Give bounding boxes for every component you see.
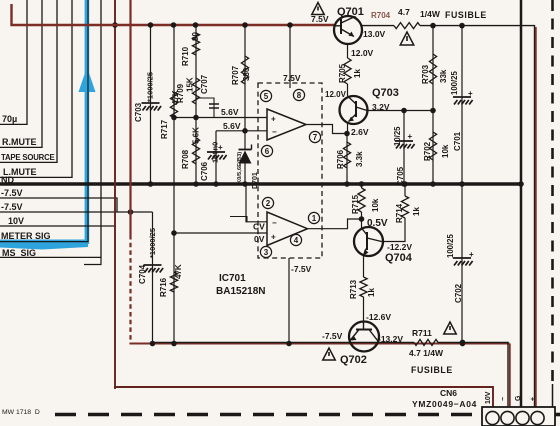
- svg-text:33k: 33k: [439, 69, 448, 83]
- svg-text:3: 3: [264, 248, 269, 257]
- resistor R705 1k: [344, 58, 351, 84]
- wire maroon vertical x130: [129, 0, 131, 235]
- wire ground bus: [0, 182, 521, 186]
- svg-text:CN6: CN6: [440, 388, 457, 398]
- svg-text:R716: R716: [159, 277, 168, 297]
- resistor R702 10k: [429, 132, 436, 160]
- pin 6 of IC701: [261, 145, 272, 156]
- svg-text:3.3k: 3.3k: [355, 151, 364, 167]
- wire C707 branch: [196, 98, 214, 118]
- svg-text:2.6V: 2.6V: [351, 127, 369, 137]
- svg-text:R711: R711: [412, 328, 432, 338]
- svg-text:47K: 47K: [174, 264, 183, 279]
- node pin4 at bottom rail: [286, 341, 292, 347]
- node C703 at bus: [148, 181, 154, 187]
- node x174 bottom rail: [171, 341, 177, 347]
- wire x433 vertical: [432, 26, 434, 184]
- wire Q704 collector to R714: [382, 218, 406, 242]
- wire -7.5V lower: [0, 211, 153, 213]
- svg-text:1k: 1k: [353, 69, 362, 78]
- svg-text:CV: CV: [253, 222, 265, 232]
- transistor Q701: [334, 16, 362, 44]
- wire C703 branch: [150, 25, 152, 184]
- node rail dot x195: [193, 22, 199, 28]
- wire top rail black right section: [362, 25, 394, 27]
- svg-text:5.6K: 5.6K: [192, 127, 201, 144]
- connector CN6 pin3 circle: [516, 411, 529, 424]
- svg-text:C702: C702: [454, 283, 463, 303]
- svg-text:+: +: [468, 89, 473, 98]
- svg-text:-7.5V: -7.5V: [322, 331, 343, 341]
- wire x462 vertical: [461, 26, 463, 344]
- svg-text:MS SIG: MS SIG: [2, 248, 36, 258]
- svg-text:-7.5V: -7.5V: [1, 188, 23, 198]
- svg-text:Q704: Q704: [385, 252, 413, 264]
- node D701 at bus: [242, 181, 248, 187]
- node C701 at bus: [459, 181, 465, 187]
- resistor R717 47K: [170, 92, 177, 118]
- svg-text:Q702: Q702: [340, 354, 367, 366]
- svg-text:YMZ0049−A04: YMZ0049−A04: [412, 399, 477, 409]
- wire op-amp U2 output: [308, 219, 362, 229]
- svg-text:80: 80: [191, 32, 200, 41]
- wire C704 branch: [152, 212, 154, 344]
- svg-text:+: +: [408, 132, 413, 141]
- node x174 opamp2 input: [171, 230, 177, 236]
- svg-text:100/25: 100/25: [446, 233, 455, 258]
- svg-text:10V: 10V: [485, 391, 492, 404]
- wire input line 3 (TAPE SOURCE): [56, 0, 58, 163]
- resistor R711 4.7 fusible: [414, 339, 438, 345]
- svg-text:C703: C703: [134, 102, 143, 122]
- node x174 top input line: [171, 115, 177, 121]
- node 0.5V node: [359, 216, 365, 222]
- svg-text:Q701: Q701: [337, 6, 364, 18]
- pin 2 of IC701: [262, 197, 273, 208]
- transistor Q704: [354, 227, 383, 256]
- pin 1 of IC701: [308, 212, 319, 223]
- pin 8 of IC701: [293, 89, 304, 100]
- wire Q704 emitter down: [363, 255, 365, 277]
- svg-text:C701: C701: [453, 131, 462, 151]
- svg-text:7.5V: 7.5V: [283, 73, 301, 83]
- wire 5.6V line to +input: [174, 117, 267, 119]
- wire x174 vertical: [173, 25, 175, 344]
- node R707 D701 junction: [242, 128, 248, 134]
- wire C706 branch: [215, 131, 217, 184]
- svg-text:5.6V: 5.6V: [221, 107, 239, 117]
- wire MS SIG jog: [84, 258, 101, 265]
- wire Q703 emitter: [347, 122, 349, 134]
- svg-text:*1000/25: *1000/25: [146, 72, 155, 102]
- node 10V at top rail: [112, 22, 118, 28]
- wire -7.5V upper: [0, 198, 117, 212]
- svg-text:13.0V: 13.0V: [363, 29, 386, 39]
- resistor R704 4.7 fusible: [394, 23, 420, 29]
- svg-text:R703: R703: [421, 64, 430, 84]
- svg-text:330: 330: [242, 67, 251, 81]
- node R709 R708 junction: [193, 115, 199, 121]
- svg-text:12.0V: 12.0V: [325, 90, 347, 99]
- node R702 at bus: [430, 181, 436, 187]
- capacitor C701 symbol: [453, 96, 471, 98]
- svg-text:4: 4: [294, 236, 299, 245]
- wire C705 branch: [403, 111, 405, 185]
- svg-text:C707: C707: [200, 74, 209, 94]
- wire METER SIG core horizontal: [0, 241, 88, 243]
- wire op-amp U2 +input: [174, 232, 267, 234]
- capacitor C707 symbol: [209, 103, 219, 105]
- wire Q701 emitter down: [347, 44, 349, 58]
- wire blue highlight horizontal METER SIG path: [0, 240, 88, 250]
- svg-text:−: −: [272, 219, 277, 228]
- wire 5.6V line to -input: [216, 130, 267, 132]
- svg-text:10k: 10k: [441, 144, 450, 158]
- svg-text:1: 1: [312, 214, 317, 223]
- svg-text:6: 6: [265, 147, 270, 156]
- warning triangle near R704: [400, 32, 414, 45]
- wire Q703 collector line: [367, 110, 433, 112]
- svg-text:8: 8: [297, 91, 302, 100]
- blue arrow on highlighted path: [79, 67, 96, 92]
- svg-text:R706: R706: [336, 149, 345, 169]
- svg-text:1k: 1k: [367, 288, 376, 297]
- svg-text:2: 2: [266, 199, 271, 208]
- node C706 at bus: [213, 181, 219, 187]
- svg-text:MW 1718 D: MW 1718 D: [2, 409, 40, 416]
- svg-text:R717: R717: [160, 119, 169, 139]
- svg-text:−: −: [272, 128, 277, 137]
- node R706 at bus: [344, 181, 350, 187]
- wire top rail maroon: [12, 4, 335, 25]
- svg-text:15K: 15K: [186, 77, 195, 92]
- wire top rail after R704: [420, 26, 535, 407]
- resistor R710 80: [192, 33, 199, 55]
- wire x196 vertical: [195, 25, 197, 184]
- resistor R709 15K: [192, 78, 199, 104]
- svg-text:FUSIBLE: FUSIBLE: [411, 365, 453, 375]
- connector CN6 pin1 circle: [486, 411, 499, 424]
- wire input line 1 (70u): [26, 0, 28, 125]
- node rail dot x433: [430, 23, 436, 29]
- capacitor C705 symbol: [395, 140, 413, 142]
- node C705 at bus: [401, 181, 407, 187]
- wire bottom rail black left: [152, 341, 414, 343]
- pin 7 of IC701: [309, 131, 320, 142]
- wire Q704 base: [361, 219, 363, 228]
- node C705 top: [401, 108, 407, 114]
- resistor R706 3.3k: [343, 142, 350, 168]
- svg-text:R702: R702: [423, 141, 432, 161]
- resistor R715 10k: [358, 188, 365, 212]
- svg-text:100n0: 100n0: [211, 142, 220, 163]
- node rail dot x287: [287, 22, 293, 28]
- capacitor C704 symbol: [144, 264, 162, 266]
- svg-text:100/25: 100/25: [450, 70, 459, 95]
- svg-text:R705: R705: [338, 63, 347, 83]
- svg-text:4.7 1/4W: 4.7 1/4W: [409, 348, 444, 358]
- svg-text:Q703: Q703: [372, 87, 399, 99]
- node C704 at bottom rail: [150, 341, 156, 347]
- connector CN6 pin2 circle: [501, 411, 514, 424]
- svg-text:K0/5,6E(B3): K0/5,6E(B3): [237, 152, 243, 184]
- resistor R713 1k: [360, 277, 367, 297]
- wire op-amp U2 -input from ground: [246, 184, 267, 222]
- node R708 at bus: [193, 181, 199, 187]
- svg-text:C704: C704: [138, 264, 147, 284]
- node rail dot x150: [148, 22, 154, 28]
- svg-text:*1000/25: *1000/25: [148, 228, 157, 258]
- svg-text:R704: R704: [371, 11, 391, 20]
- op-amp U2: [267, 212, 308, 246]
- diode D701 (zener): [244, 131, 246, 150]
- svg-text:5.6V: 5.6V: [223, 121, 241, 131]
- svg-text:10k: 10k: [371, 198, 380, 212]
- wire R707 branch: [244, 25, 246, 131]
- resistor R708 5.6K: [192, 138, 199, 164]
- svg-text:R708: R708: [181, 149, 190, 169]
- wire bottom rail black right: [438, 342, 508, 407]
- svg-text:−: −: [500, 397, 507, 401]
- wire 10V bottom run to CN6: [114, 387, 493, 407]
- svg-text:+: +: [271, 233, 276, 242]
- transistor Q702: [349, 322, 379, 352]
- svg-text:R710: R710: [181, 46, 190, 66]
- node C702 at bottom rail: [460, 341, 466, 347]
- svg-text:-12.6V: -12.6V: [366, 312, 391, 322]
- svg-text:1k: 1k: [412, 207, 421, 216]
- resistor R716 47K: [170, 272, 177, 292]
- node ground bus meets vertical: [518, 181, 524, 187]
- svg-text:-7.5V: -7.5V: [291, 264, 312, 274]
- capacitor C702 symbol: [453, 257, 471, 259]
- svg-text:R707: R707: [231, 65, 240, 85]
- capacitor C703 symbol: [142, 102, 160, 104]
- node x433 collector node: [430, 108, 436, 114]
- wire R706 branch: [346, 134, 348, 185]
- warning triangle near Q701: [312, 3, 324, 15]
- svg-text:7.5V: 7.5V: [311, 14, 329, 24]
- svg-text:+: +: [271, 115, 276, 124]
- svg-text:10V: 10V: [8, 216, 24, 226]
- wire 10V label line: [0, 225, 115, 227]
- wire R705 to Q703: [347, 84, 349, 96]
- svg-text:-12.2V: -12.2V: [387, 242, 412, 252]
- resistor R707 330: [241, 56, 248, 84]
- svg-text:R709: R709: [176, 83, 185, 103]
- svg-text:G: G: [515, 395, 522, 401]
- capacitor C706 symbol: [207, 151, 225, 153]
- svg-text:R715: R715: [351, 194, 360, 214]
- svg-text:10/25: 10/25: [393, 126, 402, 146]
- svg-text:-7.5V: -7.5V: [1, 202, 23, 212]
- transistor Q703: [340, 96, 368, 124]
- svg-text:7: 7: [313, 133, 318, 142]
- svg-text:FUSIBLE: FUSIBLE: [445, 10, 487, 20]
- wire maroon bottom rail y343: [130, 343, 510, 345]
- resistor R703 33k: [429, 54, 436, 84]
- wire input line 6 (MS SIG): [100, 0, 102, 258]
- wire maroon vertical to CN6 pin2: [509, 344, 511, 408]
- svg-text:+: +: [469, 250, 474, 259]
- svg-text:0V: 0V: [254, 234, 265, 244]
- connector CN6 pin4 circle: [531, 411, 544, 424]
- svg-text:+: +: [530, 397, 537, 401]
- node R715 at bus: [359, 181, 365, 187]
- pin 3 of IC701: [260, 246, 271, 257]
- op-amp U1: [267, 109, 306, 140]
- svg-text:IC701: IC701: [219, 273, 246, 284]
- svg-text:12.0V: 12.0V: [351, 48, 374, 58]
- svg-text:70µ: 70µ: [2, 114, 17, 124]
- wire input line 4 (L.MUTE): [71, 0, 73, 178]
- wire 10V vertical run: [114, 0, 116, 389]
- svg-text:C706: C706: [200, 161, 209, 181]
- svg-text:1/4W: 1/4W: [420, 9, 441, 19]
- svg-text:R714: R714: [395, 203, 404, 223]
- warning triangle near R711: [444, 322, 456, 334]
- warning triangle near Q702: [323, 348, 335, 360]
- pin 4 of IC701: [290, 234, 301, 245]
- node -7.5V junction: [128, 209, 134, 215]
- node op1 output emitter junction: [344, 131, 350, 137]
- svg-text:BA15218N: BA15218N: [216, 286, 265, 297]
- pin 5 of IC701: [260, 90, 271, 101]
- node R711 C702 junction: [460, 340, 466, 346]
- svg-text:R.MUTE: R.MUTE: [2, 137, 37, 147]
- wire maroon overlay right vertical: [535, 27, 537, 407]
- connector CN6 body: [482, 407, 555, 426]
- svg-text:4.7: 4.7: [398, 7, 410, 17]
- border dashed bottom: [55, 413, 481, 417]
- border dashed vertical right: [551, 0, 554, 384]
- wire input line 2 (R.MUTE): [41, 0, 43, 148]
- node R714 at bus: [402, 181, 408, 187]
- wire pin4 to negative rail: [288, 258, 290, 344]
- resistor R714 1k: [401, 196, 408, 218]
- node rail dot x462: [459, 23, 465, 29]
- node rail dot x245: [242, 22, 248, 28]
- svg-text:METER SIG: METER SIG: [1, 231, 51, 241]
- wire METER SIG core vertical: [87, 0, 89, 242]
- wire op-amp U1 output: [306, 125, 347, 134]
- wire R713 to Q702: [363, 297, 365, 322]
- node rail dot x173: [171, 22, 177, 28]
- svg-text:R713: R713: [349, 279, 358, 299]
- svg-text:TAPE SOURCE: TAPE SOURCE: [1, 153, 55, 162]
- wire pin8 supply: [289, 25, 291, 88]
- svg-text:5: 5: [264, 92, 269, 101]
- wire blue highlight vertical METER SIG path: [85, 0, 90, 244]
- IC701 dashed box: [258, 83, 322, 258]
- wire ground vertical to CN6: [520, 0, 523, 407]
